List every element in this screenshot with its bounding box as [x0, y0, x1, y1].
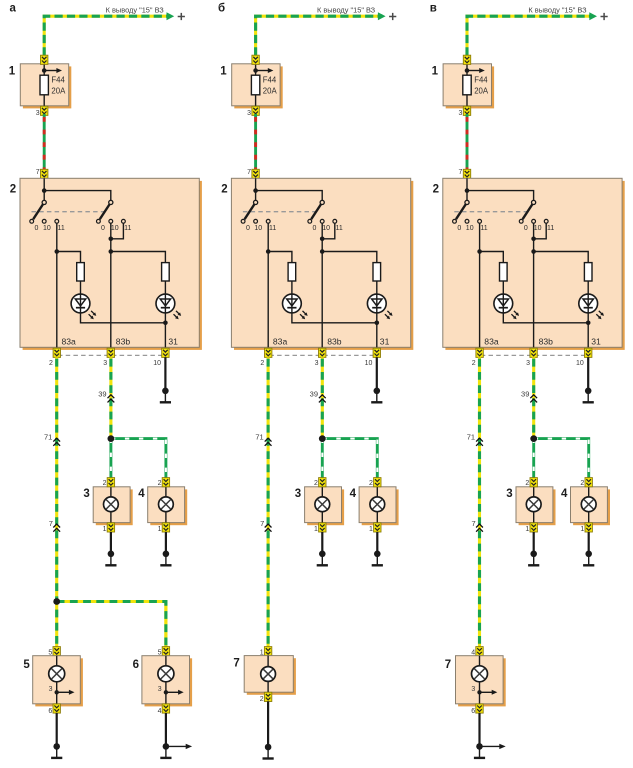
svg-text:2: 2: [260, 696, 264, 703]
svg-text:6: 6: [48, 708, 52, 715]
svg-text:6: 6: [471, 708, 475, 715]
svg-text:6: 6: [133, 659, 139, 671]
svg-text:1: 1: [432, 66, 439, 78]
svg-text:2: 2: [10, 184, 16, 196]
svg-text:2: 2: [433, 184, 439, 196]
svg-text:1: 1: [9, 66, 16, 78]
svg-text:1: 1: [220, 66, 227, 78]
svg-text:5: 5: [23, 659, 30, 671]
svg-text:а: а: [10, 3, 17, 15]
svg-text:7: 7: [233, 658, 239, 670]
svg-text:б: б: [218, 3, 225, 15]
svg-text:7: 7: [445, 659, 451, 671]
svg-text:в: в: [430, 3, 437, 15]
svg-text:2: 2: [221, 184, 227, 196]
svg-text:4: 4: [158, 708, 162, 715]
